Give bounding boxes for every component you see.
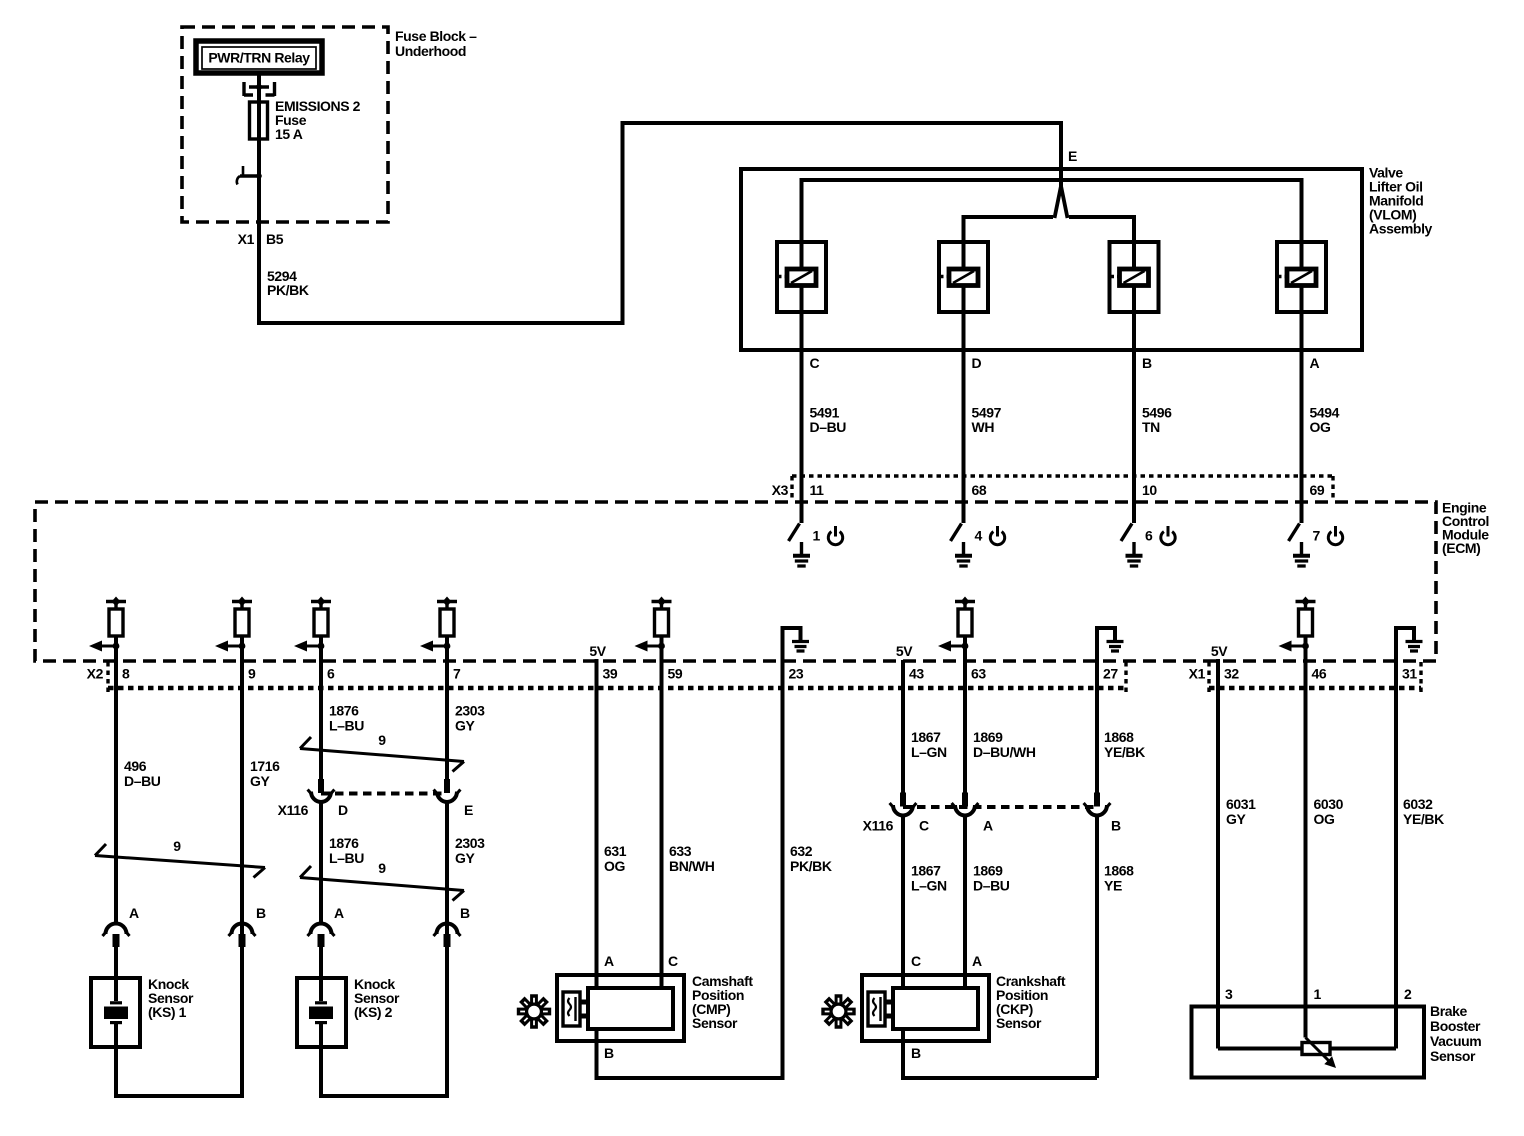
knock sensor KS2 <box>297 978 346 1047</box>
svg-text:1869: 1869 <box>973 863 1003 879</box>
svg-text:9: 9 <box>378 732 386 748</box>
svg-text:1868: 1868 <box>1104 863 1134 879</box>
svg-text:6: 6 <box>1145 528 1153 544</box>
connector face X1 dotted line <box>1209 686 1421 690</box>
svg-text:1867: 1867 <box>911 729 941 745</box>
driver switch 7 (pin 69) <box>1289 524 1343 567</box>
svg-text:X1: X1 <box>238 231 255 247</box>
wire 633 BN/WH pin 59 to CMP C <box>660 636 664 990</box>
svg-text:D: D <box>338 802 348 818</box>
svg-text:D: D <box>972 355 982 371</box>
svg-text:D–BU: D–BU <box>973 878 1010 894</box>
connector X116 dashed link D-E <box>321 792 447 796</box>
connector A at KS1 <box>103 905 140 978</box>
wire CKP B bottom loop <box>903 1029 1097 1078</box>
svg-text:X3: X3 <box>772 482 789 498</box>
twisted pair symbol 9 (wires 6,7 lower) <box>300 860 464 901</box>
potentiometer track BBVS <box>1218 1047 1396 1051</box>
resistor pull-up pin 8 <box>89 597 126 652</box>
wire KS2 bottom loop <box>321 947 447 1096</box>
ground hook pin 27 <box>1097 628 1124 661</box>
svg-text:4: 4 <box>975 528 983 544</box>
svg-text:(KS) 1: (KS) 1 <box>148 1004 187 1020</box>
svg-text:GY: GY <box>455 718 475 734</box>
svg-text:L–BU: L–BU <box>329 718 364 734</box>
crankshaft position CKP sensor <box>862 975 989 1041</box>
clip terminal symbol at fuse output <box>237 166 262 185</box>
svg-text:63: 63 <box>971 666 986 682</box>
connector X3 row <box>772 476 1333 498</box>
wire 6030 OG pin 46 to BBVS 1 <box>1304 636 1308 1038</box>
connector X116 dashed link C-A-B <box>903 805 1097 809</box>
svg-text:2303: 2303 <box>455 835 485 851</box>
solenoid 3 (pin B) <box>1110 242 1159 312</box>
wire 631 OG pin 39 to CMP A <box>595 659 599 990</box>
svg-text:X1: X1 <box>1189 666 1206 682</box>
resistor pull-up pin 59 <box>635 597 672 652</box>
wire solenoid C to ECM driver 1 <box>800 312 804 523</box>
svg-text:YE: YE <box>1104 878 1122 894</box>
svg-text:C: C <box>911 953 921 969</box>
svg-text:A: A <box>972 953 982 969</box>
svg-text:X2: X2 <box>87 666 104 682</box>
svg-text:D–BU: D–BU <box>124 773 161 789</box>
svg-text:PWR/TRN Relay: PWR/TRN Relay <box>208 50 310 66</box>
label Knock Sensor (KS) 1 <box>148 976 194 1020</box>
svg-text:7: 7 <box>1313 528 1321 544</box>
gear icon at CKP <box>821 994 855 1028</box>
wire bus outer solenoids <box>802 180 1302 242</box>
svg-text:633: 633 <box>669 843 692 859</box>
svg-text:1: 1 <box>813 528 821 544</box>
svg-text:Booster: Booster <box>1430 1018 1481 1034</box>
connector X116 pin A <box>952 793 979 991</box>
twisted pair symbol 9 (wires 6,7 upper) <box>300 732 464 772</box>
svg-text:Fuse Block –: Fuse Block – <box>395 28 477 44</box>
svg-text:Vacuum: Vacuum <box>1430 1033 1481 1049</box>
wire solenoid A to ECM driver 7 <box>1300 312 1304 523</box>
resistor pull-up pin 63 <box>938 597 975 652</box>
wire 6031 GY pin 32 to BBVS 3 <box>1216 659 1220 1049</box>
svg-text:D–BU: D–BU <box>810 419 847 435</box>
svg-text:46: 46 <box>1312 666 1327 682</box>
svg-text:OG: OG <box>604 858 625 874</box>
svg-text:9: 9 <box>173 838 181 854</box>
svg-text:L–GN: L–GN <box>911 744 947 760</box>
svg-text:6032: 6032 <box>1403 796 1433 812</box>
resistor pull-up pin 9 <box>215 597 252 652</box>
wire solenoid D to ECM driver 4 <box>962 312 966 523</box>
svg-text:B5: B5 <box>266 231 284 247</box>
svg-text:C: C <box>919 818 929 834</box>
label Knock Sensor (KS) 2 <box>354 976 400 1020</box>
svg-text:X116: X116 <box>278 802 309 818</box>
svg-text:A: A <box>983 818 993 834</box>
svg-text:7: 7 <box>453 666 461 682</box>
svg-text:B: B <box>1142 355 1152 371</box>
svg-text:Underhood: Underhood <box>395 43 466 59</box>
solenoid 4 (pin A) <box>1277 242 1326 312</box>
svg-text:9: 9 <box>378 860 386 876</box>
driver switch 1 (pin 11) <box>789 524 843 567</box>
svg-text:Sensor: Sensor <box>1430 1048 1476 1064</box>
svg-text:Assembly: Assembly <box>1369 221 1433 237</box>
gear icon at CMP <box>517 994 551 1028</box>
wire 1876 L-BU pin 6 to KS2 A <box>319 636 323 779</box>
svg-text:BN/WH: BN/WH <box>669 858 715 874</box>
wire 496 D-BU pin 8 to KS1 A <box>114 636 118 925</box>
svg-text:32: 32 <box>1224 666 1239 682</box>
wire 1716 GY pin 9 to KS1 B <box>240 636 244 925</box>
svg-text:TN: TN <box>1142 419 1160 435</box>
label Engine Control Module (ECM) <box>1442 500 1489 557</box>
svg-text:39: 39 <box>603 666 618 682</box>
svg-text:1716: 1716 <box>250 758 280 774</box>
svg-text:1: 1 <box>1314 986 1322 1002</box>
brake booster vacuum sensor box <box>1192 1007 1425 1078</box>
solenoid 1 (pin C) <box>777 242 826 312</box>
wire relay to terminal <box>257 74 261 87</box>
wire 6032 YE/BK pin 31 to BBVS 2 <box>1394 628 1398 1049</box>
svg-text:8: 8 <box>122 666 130 682</box>
svg-text:B: B <box>604 1045 614 1061</box>
resistor pull-up pin 46 <box>1279 597 1316 652</box>
svg-text:1867: 1867 <box>911 863 941 879</box>
connector X116 pin C <box>890 793 917 991</box>
connector X116 pin E <box>434 779 461 925</box>
svg-text:A: A <box>1310 355 1320 371</box>
svg-text:6030: 6030 <box>1314 796 1344 812</box>
connector B at KS1 <box>229 905 267 947</box>
svg-text:43: 43 <box>909 666 924 682</box>
svg-text:(KS) 2: (KS) 2 <box>354 1004 393 1020</box>
svg-text:C: C <box>810 355 820 371</box>
svg-text:YE/BK: YE/BK <box>1403 811 1444 827</box>
label Brake Booster Vacuum Sensor <box>1430 1003 1481 1064</box>
knock sensor KS1 <box>91 978 140 1047</box>
svg-text:9: 9 <box>248 666 256 682</box>
svg-text:27: 27 <box>1103 666 1118 682</box>
svg-text:631: 631 <box>604 843 627 859</box>
svg-text:2: 2 <box>1404 986 1412 1002</box>
svg-text:PK/BK: PK/BK <box>790 858 832 874</box>
svg-text:E: E <box>464 802 473 818</box>
connector X116 pin B <box>1084 793 1111 1079</box>
svg-text:5V: 5V <box>896 643 913 659</box>
svg-text:GY: GY <box>1226 811 1246 827</box>
svg-text:6: 6 <box>327 666 335 682</box>
resistor pull-up pin 7 <box>420 597 457 652</box>
svg-text:GY: GY <box>455 850 475 866</box>
connector X116 pin D <box>308 779 335 925</box>
svg-text:1869: 1869 <box>973 729 1003 745</box>
driver switch 6 (pin 10) <box>1121 524 1175 567</box>
svg-text:B: B <box>256 905 266 921</box>
svg-text:YE/BK: YE/BK <box>1104 744 1145 760</box>
ground hook pin 23 <box>783 628 810 661</box>
connector B at KS2 <box>434 905 471 947</box>
svg-text:E: E <box>1068 148 1077 164</box>
svg-text:1868: 1868 <box>1104 729 1134 745</box>
twisted pair symbol 9 (wires 8,9) <box>95 838 265 878</box>
svg-text:68: 68 <box>972 482 987 498</box>
connector A at KS2 <box>308 905 345 978</box>
svg-text:6031: 6031 <box>1226 796 1256 812</box>
potentiometer element BBVS <box>1302 1038 1336 1069</box>
svg-text:Brake: Brake <box>1430 1003 1468 1019</box>
svg-text:PK/BK: PK/BK <box>267 282 309 298</box>
wire bus inner solenoids <box>964 217 1135 242</box>
label Crankshaft Position (CKP) Sensor <box>996 973 1066 1031</box>
ground hook pin 31 <box>1396 628 1423 661</box>
svg-text:11: 11 <box>810 482 825 498</box>
svg-text:B: B <box>1111 818 1121 834</box>
wire 5294 PK/BK from fuse block to VLOM pin E <box>259 123 1061 323</box>
camshaft position CMP sensor <box>557 975 684 1041</box>
svg-text:5V: 5V <box>1211 643 1228 659</box>
svg-text:2303: 2303 <box>455 703 485 719</box>
svg-text:A: A <box>129 905 139 921</box>
svg-text:1876: 1876 <box>329 835 359 851</box>
svg-text:Sensor: Sensor <box>692 1015 738 1031</box>
VLOM assembly box <box>741 169 1362 350</box>
svg-text:L–GN: L–GN <box>911 878 947 894</box>
fuse block underhood dashed box <box>182 27 388 222</box>
wire 1868 YE/BK pin 27 to X116 B <box>1095 628 1099 793</box>
svg-text:L–BU: L–BU <box>329 850 364 866</box>
svg-text:X116: X116 <box>863 818 894 834</box>
relay PWR/TRN Relay <box>196 41 322 73</box>
ECM dashed outline <box>35 502 1436 661</box>
svg-text:(ECM): (ECM) <box>1442 540 1480 556</box>
svg-text:1876: 1876 <box>329 703 359 719</box>
wire 1869 D-BU/WH pin 63 to CKP A <box>963 636 967 793</box>
terminal socket symbol below relay <box>244 82 275 96</box>
svg-text:23: 23 <box>789 666 804 682</box>
wire 632 PK/BK pin 23 to CMP B <box>597 628 783 1078</box>
wire 1867 L-GN pin 43 to CKP C <box>901 660 905 793</box>
wire KS1 bottom loop <box>116 947 242 1096</box>
svg-text:69: 69 <box>1310 482 1325 498</box>
wire E feed inside VLOM <box>1059 169 1063 190</box>
label Valve Lifter Oil Manifold (VLOM) Assembly <box>1369 165 1433 237</box>
svg-text:OG: OG <box>1314 811 1335 827</box>
svg-text:31: 31 <box>1402 666 1417 682</box>
svg-text:WH: WH <box>972 419 995 435</box>
connector face X2 dotted line <box>108 686 1126 690</box>
svg-text:632: 632 <box>790 843 813 859</box>
svg-text:59: 59 <box>668 666 683 682</box>
svg-text:D–BU/WH: D–BU/WH <box>973 744 1036 760</box>
svg-text:15 A: 15 A <box>275 126 303 142</box>
svg-text:B: B <box>460 905 470 921</box>
svg-text:A: A <box>334 905 344 921</box>
svg-text:3: 3 <box>1225 986 1233 1002</box>
solenoid 2 (pin D) <box>939 242 988 312</box>
wire solenoid B to ECM driver 6 <box>1132 312 1136 523</box>
svg-text:Sensor: Sensor <box>996 1015 1042 1031</box>
resistor pull-up pin 6 <box>294 597 331 652</box>
svg-text:OG: OG <box>1310 419 1331 435</box>
svg-text:496: 496 <box>124 758 147 774</box>
fuse EMISSIONS 2 15A <box>250 87 361 176</box>
label Camshaft Position (CMP) Sensor <box>692 973 753 1031</box>
wire 2303 GY pin 7 to KS2 B <box>445 636 449 779</box>
svg-text:B: B <box>911 1045 921 1061</box>
svg-text:C: C <box>668 953 678 969</box>
driver switch 4 (pin 68) <box>951 524 1005 567</box>
svg-text:A: A <box>604 953 614 969</box>
svg-text:10: 10 <box>1142 482 1157 498</box>
svg-text:GY: GY <box>250 773 270 789</box>
splice fork from E to inner bus <box>1055 186 1068 218</box>
svg-text:5V: 5V <box>589 643 606 659</box>
